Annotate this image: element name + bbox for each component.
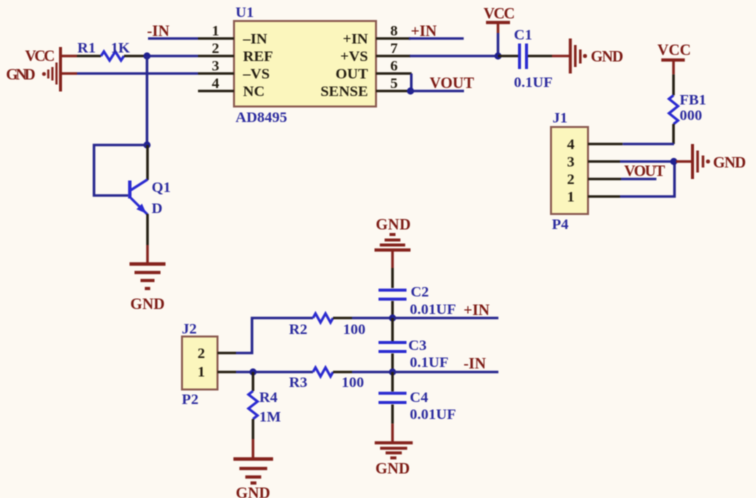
J1 pin 3 [567, 155, 620, 171]
wire R2 to +IN junction [352, 317, 393, 320]
svg-text:FB1: FB1 [680, 92, 707, 108]
svg-text:GND: GND [130, 296, 164, 313]
capacitor C1 0.1UF [498, 28, 553, 92]
svg-text:0.01UF: 0.01UF [410, 407, 456, 423]
svg-text:GND: GND [6, 67, 36, 84]
svg-text:-IN: -IN [464, 356, 486, 373]
node +IN junction [389, 314, 396, 321]
svg-text:P4: P4 [552, 217, 569, 233]
svg-text:100: 100 [342, 375, 365, 391]
svg-text:REF: REF [243, 49, 273, 65]
svg-text:U1: U1 [236, 5, 254, 21]
svg-text:R1: R1 [77, 41, 95, 57]
svg-text:GND: GND [713, 155, 746, 172]
net +IN (mid) label [464, 302, 490, 319]
net VOUT (J1) label [624, 163, 666, 180]
J1 pin 2 [567, 172, 621, 188]
svg-text:R4: R4 [259, 390, 278, 406]
U1 pin 7 [376, 41, 411, 57]
node junction R1/pin2 [143, 52, 150, 59]
U1 pin 1 [198, 24, 234, 40]
svg-text:2: 2 [212, 41, 220, 57]
svg-text:1K: 1K [111, 41, 131, 57]
node -IN junction [389, 368, 396, 375]
U1 pin 6 [376, 59, 412, 75]
svg-text:Q1: Q1 [152, 180, 171, 196]
svg-text:C2: C2 [411, 285, 429, 301]
U1 pin 2 [198, 41, 234, 57]
wire FB1 to J1 pin4 [623, 143, 674, 146]
wire pin6 corner down [410, 74, 413, 92]
svg-text:–IN: –IN [242, 32, 267, 48]
node J1 GND junction [670, 158, 677, 165]
net VOUT (top) label [430, 75, 475, 92]
svg-text:C4: C4 [410, 390, 429, 406]
J2 pin 1 [198, 365, 236, 381]
svg-text:0.01UF: 0.01UF [410, 302, 456, 318]
svg-text:7: 7 [390, 41, 398, 57]
svg-text:5: 5 [390, 76, 398, 92]
svg-text:R3: R3 [289, 375, 307, 391]
node pin7/VCC/C1 junction [494, 52, 501, 59]
J1 pin 4 [567, 137, 623, 153]
ground GND (inverted, above C2) [375, 216, 411, 268]
U1 pin 5 [376, 76, 410, 92]
U1 pin 8 [376, 24, 411, 40]
svg-text:P2: P2 [182, 392, 199, 408]
wire -VS row [77, 72, 198, 75]
wire R3 to -IN junction [352, 371, 393, 374]
wire VCC drop [497, 33, 500, 56]
node base loop junction [143, 141, 150, 148]
net -IN (mid) label [464, 356, 486, 373]
power port VCC (left) [25, 47, 77, 92]
net +IN (top) label [411, 23, 437, 40]
connector J2 body [182, 322, 218, 408]
wire R4 to GND [252, 439, 255, 458]
svg-text:1: 1 [198, 365, 206, 381]
resistor R4 1M [249, 372, 281, 439]
svg-text:6: 6 [390, 59, 398, 75]
wire vertical down to Q1 [146, 56, 149, 145]
svg-text:+IN: +IN [411, 23, 437, 40]
power port GND (left) [6, 63, 77, 85]
svg-text:J1: J1 [553, 111, 568, 127]
wire +IN (mid) [393, 317, 499, 320]
svg-text:J2: J2 [182, 322, 197, 338]
svg-text:0.1UF: 0.1UF [514, 75, 553, 91]
svg-text:2: 2 [198, 346, 206, 362]
wire pin7 to VCC junction [410, 55, 498, 58]
wire J1 pin2 VOUT [621, 178, 656, 181]
wire J2 pin1 to R3 [236, 371, 313, 374]
wire VOUT (top) [411, 90, 465, 93]
svg-text:OUT: OUT [335, 67, 368, 83]
wire -IN (mid) [393, 371, 499, 374]
op-amp U1 AD8495 body [234, 5, 376, 126]
power port VCC (right) [657, 42, 691, 75]
ground GND right of J1 [676, 144, 746, 179]
svg-text:SENSE: SENSE [320, 84, 368, 100]
svg-text:C1: C1 [514, 28, 532, 44]
svg-text:+IN: +IN [464, 302, 490, 319]
svg-text:D: D [152, 201, 163, 217]
svg-text:3: 3 [567, 155, 575, 171]
J2 pin 2 [198, 346, 236, 362]
svg-text:1M: 1M [259, 410, 281, 426]
ground GND right of C1 [552, 39, 623, 74]
U1 pin 3 [198, 59, 234, 75]
svg-text:VOUT: VOUT [430, 75, 475, 92]
net -IN (top) label [147, 23, 169, 40]
wire base loop [94, 145, 147, 196]
svg-text:GND: GND [236, 485, 270, 498]
svg-text:GND: GND [375, 461, 409, 478]
svg-text:VOUT: VOUT [624, 163, 666, 180]
resistor R2 100 [289, 314, 366, 339]
svg-text:100: 100 [343, 322, 366, 338]
svg-text:C3: C3 [408, 338, 426, 354]
ferrite bead FB1 000 [669, 74, 706, 144]
svg-text:VCC: VCC [657, 42, 691, 59]
svg-text:–VS: –VS [242, 67, 270, 83]
svg-text:VCC: VCC [484, 6, 516, 23]
svg-text:000: 000 [680, 108, 703, 124]
resistor R1 1K [77, 41, 147, 61]
resistor R3 100 [289, 368, 364, 392]
svg-text:+VS: +VS [340, 49, 368, 65]
wire -IN to pin1 [148, 37, 198, 40]
ground GND under Q1 [130, 264, 166, 313]
wire J1 pin1 up to junction [620, 162, 675, 197]
ground GND under R4 [233, 459, 273, 498]
svg-text:GND: GND [376, 216, 411, 233]
svg-text:AD8495: AD8495 [236, 110, 288, 126]
J1 pin 1 [567, 190, 620, 206]
wire J2 pin2 up to +IN row [236, 318, 313, 353]
svg-text:R2: R2 [289, 322, 307, 338]
svg-text:NC: NC [243, 84, 265, 100]
node J2 pin1 / R4 junction [249, 368, 256, 375]
svg-text:+IN: +IN [343, 32, 368, 48]
wire J1 pin3 to GND junction [620, 160, 674, 163]
capacitor C4 0.01UF [379, 372, 457, 424]
node pin5/pin6 junction [407, 87, 414, 94]
svg-text:0.1UF: 0.1UF [410, 355, 449, 371]
transistor Q1 [130, 145, 171, 217]
ground GND under C4 [375, 443, 413, 478]
wire C4 to GND [391, 424, 394, 442]
svg-text:1: 1 [212, 24, 220, 40]
connector J1 body [551, 111, 588, 234]
power port VCC (top) [484, 6, 516, 34]
svg-text:2: 2 [567, 172, 575, 188]
svg-text:4: 4 [567, 137, 575, 153]
U1 pin 4 [198, 76, 234, 92]
capacitor C3 0.1UF [379, 318, 449, 372]
svg-text:1: 1 [567, 190, 575, 206]
wire pin2 row [147, 55, 198, 58]
wire +IN (top) [409, 37, 464, 40]
svg-text:VCC: VCC [25, 48, 55, 65]
svg-text:4: 4 [212, 76, 220, 92]
capacitor C2 0.01UF [379, 268, 457, 318]
wire Q1 emitter down [146, 214, 149, 263]
svg-text:3: 3 [212, 59, 220, 75]
svg-text:8: 8 [390, 24, 398, 40]
svg-text:GND: GND [591, 49, 624, 66]
